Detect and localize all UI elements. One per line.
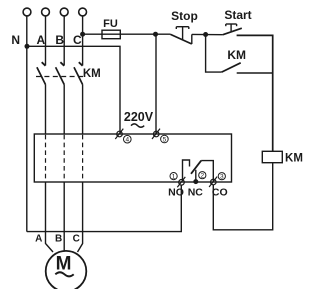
svg-text:FU: FU	[103, 18, 118, 30]
terminal N	[23, 8, 31, 16]
svg-text:N: N	[11, 33, 20, 47]
svg-text:Stop: Stop	[171, 9, 198, 23]
start button	[223, 24, 242, 35]
node stop-out junction	[203, 32, 208, 37]
svg-text:5: 5	[163, 136, 167, 143]
coil KM	[262, 151, 282, 162]
svg-text:KM: KM	[227, 48, 246, 62]
changeover contact blade	[191, 161, 213, 181]
wire coil to bottom	[213, 163, 272, 230]
terminal NO screw	[177, 177, 185, 187]
ac tilde	[131, 124, 144, 127]
svg-text:B: B	[55, 33, 64, 47]
node N junction	[25, 44, 30, 49]
label 2 circled	[199, 172, 206, 180]
node NC junction	[193, 179, 198, 184]
wire NC stem	[195, 170, 197, 182]
wire phase C lower	[82, 85, 84, 135]
terminal 5 screw	[152, 129, 160, 139]
wire phase B upper	[63, 16, 65, 66]
wire N branch to terminal 4	[27, 46, 120, 134]
svg-text:A: A	[36, 33, 45, 47]
motor M	[46, 251, 87, 289]
appliance box	[34, 134, 231, 182]
node fuse-out junction	[153, 32, 158, 37]
wire fuse to stop	[120, 33, 170, 35]
wire phase C to motor	[78, 182, 83, 252]
svg-text:3: 3	[220, 174, 224, 181]
svg-text:A: A	[35, 234, 42, 245]
svg-text:NC: NC	[188, 187, 204, 199]
label 4 circled	[124, 135, 132, 143]
wire start to right rail	[237, 35, 273, 151]
svg-text:C: C	[73, 234, 80, 245]
svg-text:Start: Start	[224, 8, 251, 22]
wire phase B dashed inside box	[63, 135, 65, 182]
terminal 4 screw	[115, 129, 123, 139]
contactor KM main pole A	[37, 62, 46, 84]
wire phase A to motor	[46, 182, 54, 252]
stop button	[171, 27, 192, 44]
terminal B	[60, 8, 68, 16]
wire stop to start	[192, 33, 223, 35]
terminal CO screw	[209, 177, 217, 187]
svg-text:2: 2	[200, 173, 204, 180]
svg-text:4: 4	[125, 137, 129, 144]
wire phase B to motor	[63, 182, 65, 251]
svg-text:M: M	[56, 254, 72, 275]
changeover contact NO hook	[183, 160, 190, 181]
node C junction	[80, 32, 85, 37]
wire phase A lower	[45, 85, 47, 135]
wire phase C dashed inside box	[82, 135, 84, 182]
contact KM aux	[206, 35, 241, 73]
linkage dashed	[36, 76, 83, 78]
wire phase A dashed inside box	[45, 135, 47, 182]
svg-text:B: B	[55, 234, 62, 245]
label 5 circled	[161, 135, 169, 143]
label 3 circled	[218, 173, 225, 181]
wire N bottom return	[27, 185, 182, 232]
wire phase C upper	[82, 16, 84, 66]
wire C to fuse	[83, 33, 102, 35]
label 1 circled	[170, 173, 177, 181]
contactor KM main pole B	[56, 62, 65, 84]
wire phase A upper	[45, 16, 47, 66]
fuse FU	[102, 30, 120, 39]
wire aux to right rail	[237, 72, 273, 74]
svg-text:KM: KM	[285, 152, 303, 164]
svg-text:KM: KM	[83, 68, 101, 80]
contactor KM main pole C	[74, 62, 83, 84]
wire to terminal 5	[155, 34, 157, 134]
terminal C	[79, 8, 87, 16]
svg-text:1: 1	[172, 174, 176, 181]
terminal A	[42, 8, 50, 16]
svg-text:220V: 220V	[124, 110, 154, 124]
wire N vertical	[26, 16, 28, 232]
wire phase B lower	[63, 85, 65, 135]
svg-text:CO: CO	[212, 187, 228, 199]
